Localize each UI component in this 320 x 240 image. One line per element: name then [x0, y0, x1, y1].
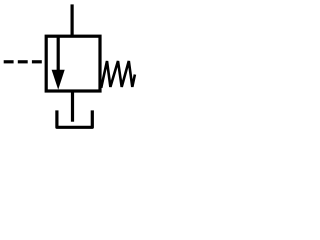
wire: bottom return line [71, 91, 74, 122]
pressure relief valve schematic [0, 0, 138, 134]
valve body (square) [46, 36, 100, 91]
flow path arrowhead [52, 70, 65, 90]
pilot line dash 1 [4, 60, 14, 63]
spring [101, 61, 135, 88]
pilot line dash 3 [32, 60, 42, 63]
wire: top pressure port line [70, 4, 73, 36]
flow path arrow shaft [57, 37, 60, 73]
pilot line dash 2 [18, 60, 28, 63]
tank symbol (open reservoir) [57, 110, 92, 127]
background [0, 0, 138, 134]
